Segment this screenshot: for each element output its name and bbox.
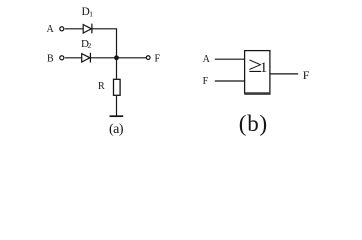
svg-text:(a): (a) <box>109 122 124 137</box>
svg-text:B: B <box>47 54 54 65</box>
wire vertical bus <box>116 29 118 79</box>
svg-text:F: F <box>303 68 310 82</box>
svg-text:2: 2 <box>88 41 92 50</box>
svg-text:A: A <box>203 54 211 65</box>
wire A to D1 anode <box>65 28 83 30</box>
wire D2 cathode to output F <box>90 57 146 59</box>
resistor R <box>114 79 121 95</box>
svg-text:F: F <box>155 53 161 64</box>
gate function label >=1 <box>248 53 262 77</box>
terminal circle output F <box>146 56 150 60</box>
svg-text:1: 1 <box>89 9 93 18</box>
wire D1 cathode to bus corner <box>92 28 117 30</box>
junction node dot <box>114 55 119 60</box>
svg-text:A: A <box>47 24 55 35</box>
label D1 <box>82 6 94 18</box>
wire resistor to ground <box>116 96 118 116</box>
svg-text:1: 1 <box>260 60 268 76</box>
ground <box>110 115 124 117</box>
wire gate output to F <box>270 73 298 75</box>
terminal circle input A <box>60 27 64 31</box>
wire B to D2 anode <box>65 57 82 59</box>
label D2 <box>81 38 92 50</box>
svg-text:(b): (b) <box>239 111 268 136</box>
OR gate U1 (IEC box) <box>244 51 270 94</box>
diode D2 <box>82 53 91 63</box>
svg-text:R: R <box>98 81 105 92</box>
wire input A to gate <box>215 58 245 60</box>
wire input F to gate <box>215 80 245 82</box>
terminal circle input B <box>60 56 64 60</box>
svg-text:F: F <box>203 76 209 87</box>
diode D1 <box>83 24 92 34</box>
